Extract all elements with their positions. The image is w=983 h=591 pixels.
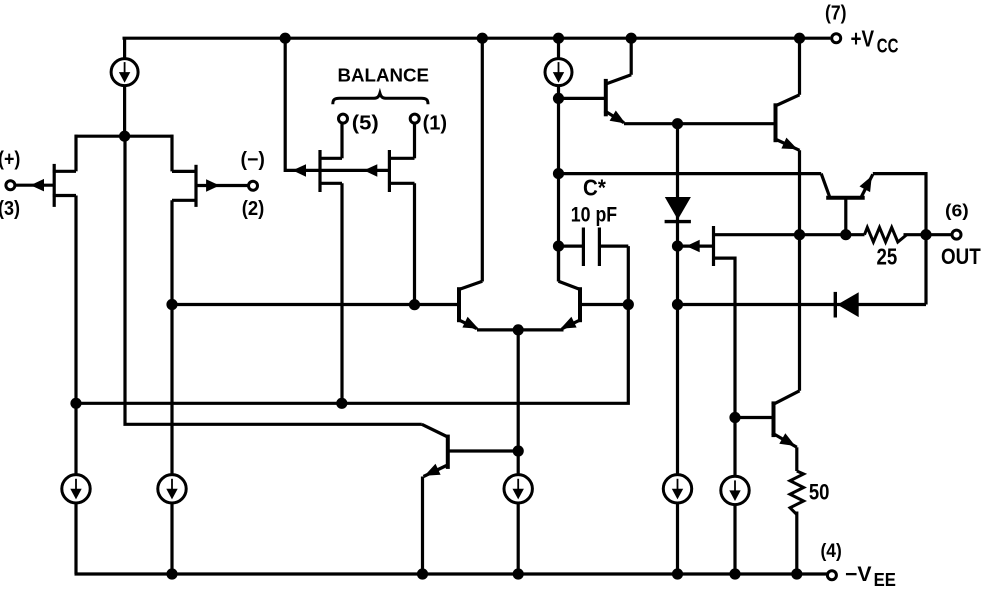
svg-text:−V: −V [845,563,872,586]
svg-text:EE: EE [874,569,896,590]
svg-text:OUT: OUT [941,244,981,269]
svg-text:(3): (3) [0,198,20,220]
svg-text:(−): (−) [241,149,265,171]
svg-text:(6): (6) [945,201,969,221]
svg-text:(7): (7) [825,3,847,25]
svg-text:(1): (1) [423,113,448,135]
svg-text:CC: CC [877,35,899,57]
svg-text:10 pF: 10 pF [571,202,617,226]
svg-text:+V: +V [851,25,875,51]
svg-text:(+): (+) [0,148,20,170]
svg-text:(5): (5) [352,113,379,135]
svg-text:C*: C* [583,175,606,201]
svg-text:(2): (2) [242,198,265,220]
svg-text:25: 25 [877,243,898,269]
svg-text:50: 50 [809,479,830,504]
svg-text:(4): (4) [821,541,842,562]
svg-text:BALANCE: BALANCE [338,65,430,85]
